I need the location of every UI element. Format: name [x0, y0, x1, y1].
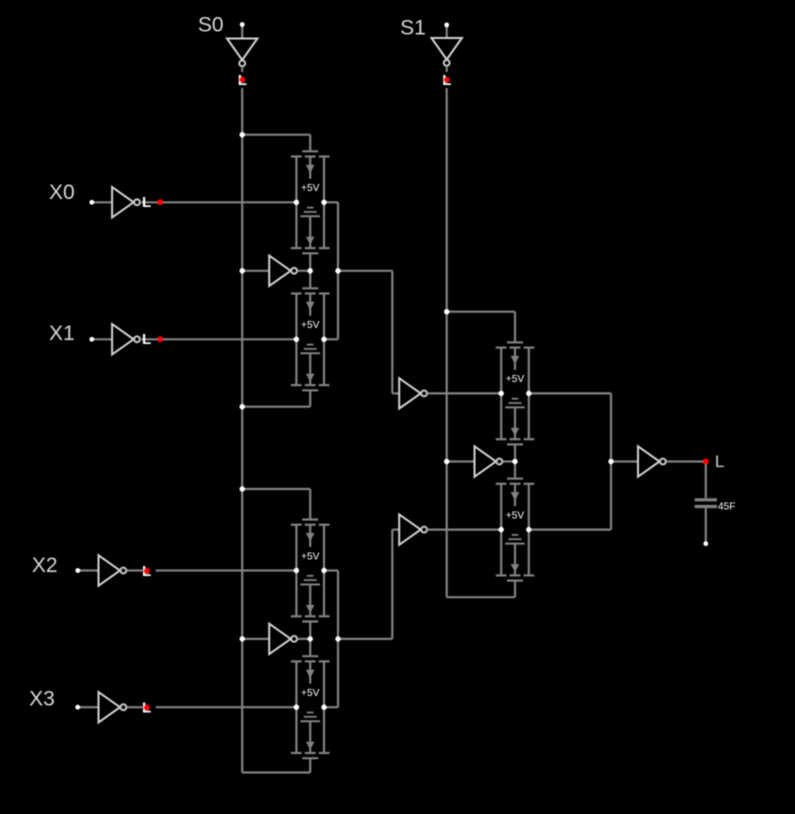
wire TG1 NMOS gate lead	[309, 253, 311, 270]
inverter U11 (S1 complement)	[475, 446, 503, 476]
svg-text:S1: S1	[400, 17, 426, 40]
wire TG5 PMOS gate riser	[514, 312, 516, 343]
wire riser to U9 input	[392, 392, 399, 394]
inverter U5 (X2)	[99, 555, 127, 585]
inverter U12 (output buffer)	[638, 446, 666, 476]
wire TG1 output right	[324, 201, 338, 203]
input post X1	[89, 337, 94, 342]
input post X2	[75, 568, 80, 573]
junction S0/U7	[240, 268, 245, 273]
inverter U1 (S0 buffer, points down)	[227, 39, 257, 67]
input post X0	[89, 200, 94, 205]
terminal dot TG3 output	[321, 568, 326, 573]
node dot X3-bar (red)	[144, 705, 150, 711]
wire U11 output to gate node	[503, 460, 515, 462]
wire stage2 output bus	[610, 393, 612, 529]
junction gate node upper	[308, 268, 313, 273]
wire U1 bubble lead	[241, 68, 243, 73]
wire U2 bubble lead	[446, 67, 448, 72]
transmission gate TG2 (PMOS bulk +5V / NMOS bulk gnd)	[291, 288, 330, 390]
wire TG6 PMOS gate lead	[514, 462, 516, 479]
transmission gate TG5 (PMOS bulk +5V / NMOS bulk gnd)	[496, 342, 535, 444]
transmission gate TG3 (PMOS bulk +5V / NMOS bulk gnd)	[291, 520, 330, 622]
wire TG2 NMOS gate riser	[309, 390, 311, 406]
wire U8 output to gate node	[298, 638, 311, 640]
wire S1 post to inverter	[446, 27, 448, 39]
terminal dot TG5 output	[526, 391, 531, 396]
terminal dot TG2 output	[321, 337, 326, 342]
node dot S0-bar (red)	[239, 77, 245, 83]
wire S1 to TG5 PMOS gate	[447, 311, 515, 313]
inverter U8 (S0 complement, lower)	[269, 624, 297, 654]
wire TG6 NMOS gate riser	[514, 581, 516, 598]
wire TG4 PMOS gate lead	[309, 639, 311, 656]
terminal dot TG4 input	[294, 705, 299, 710]
wire S0 to TG2 NMOS gate	[242, 406, 310, 408]
junction S0/TG3	[240, 486, 245, 491]
terminal dot TG2 input	[294, 337, 299, 342]
wire X0-bar to TG input	[142, 201, 297, 203]
wire U5 bubble lead	[127, 569, 143, 571]
wire U10 output to TG6 input	[427, 528, 501, 530]
svg-text:S0: S0	[198, 13, 224, 36]
wire X1-bar to TG input	[142, 338, 297, 340]
wire S0 to TG3 PMOS gate	[242, 488, 310, 490]
wire TG3 PMOS gate riser	[309, 489, 311, 520]
svg-text:X1: X1	[49, 322, 75, 345]
wire TG5 output right	[529, 392, 611, 394]
junction S0/U8	[240, 636, 245, 641]
wire TG3 output right	[324, 569, 338, 571]
wire riser up to U10	[391, 530, 393, 639]
node dot X2-bar (red)	[144, 568, 150, 574]
wire TG4 output right	[324, 706, 338, 708]
terminal dot TG6 input	[499, 527, 504, 532]
wire X2 post to inverter	[80, 569, 99, 571]
inverter U6 (X3)	[99, 692, 127, 722]
input post X3	[75, 705, 80, 710]
node dot S1-bar (red)	[444, 77, 450, 83]
wire capacitor C1 to bottom post	[705, 508, 707, 544]
wire output node to capacitor C1	[705, 462, 707, 499]
wire S0 to inverter U7	[242, 270, 269, 272]
wire TG1 PMOS gate riser	[309, 135, 311, 152]
wire S1 bus corner to TG6 gate	[447, 596, 515, 598]
wire S1 to inverter U11	[447, 460, 475, 462]
wire U7 output to gate node	[298, 270, 311, 272]
junction stage2 output	[608, 459, 613, 464]
wire mux-lower output to riser	[338, 638, 392, 640]
input post S0	[240, 22, 245, 27]
capacitor C1 bottom plate	[695, 505, 717, 508]
wire mux-lower output bus	[337, 571, 339, 708]
inverter U10 (lower mux buffer)	[399, 514, 427, 544]
wire stage2 output to U12	[611, 460, 638, 462]
terminal dot TG1 input	[294, 200, 299, 205]
wire S0 to TG1 PMOS gate	[242, 134, 310, 136]
inverter U4 (X1)	[112, 324, 140, 354]
terminal dot TG3 input	[294, 568, 299, 573]
node dot output L (red)	[703, 459, 709, 465]
terminal dot TG4 output	[321, 705, 326, 710]
svg-text:L: L	[715, 452, 724, 471]
transmission gate TG6 (PMOS bulk +5V / NMOS bulk gnd)	[496, 479, 535, 581]
wire TG5 NMOS gate lead	[514, 444, 516, 461]
svg-text:L: L	[142, 331, 151, 348]
wire riser down to U9	[391, 271, 393, 394]
wire mux-upper output bus	[337, 202, 339, 339]
svg-text:X2: X2	[32, 554, 58, 577]
svg-text:X3: X3	[29, 687, 55, 710]
junction mux-upper output	[335, 268, 340, 273]
wire X1 post to inverter	[94, 338, 113, 340]
wire TG4 NMOS gate riser	[309, 758, 311, 772]
wire X3-bar to TG input	[156, 706, 297, 708]
inverter U2 (S1 buffer, points down)	[432, 38, 462, 66]
terminal dot TG6 output	[526, 527, 531, 532]
inverter U9 (upper mux buffer)	[399, 378, 427, 408]
node dot X0-bar (red)	[157, 199, 163, 205]
capacitor C1 top plate	[695, 498, 717, 501]
input post S1	[444, 23, 449, 28]
wire X3 post to inverter	[79, 706, 98, 708]
wire TG2 PMOS gate lead	[309, 271, 311, 289]
wire U6 bubble lead	[127, 706, 143, 708]
wire S0 post to inverter	[241, 26, 243, 39]
terminal dot TG1 output	[321, 200, 326, 205]
inverter U7 (S0 complement, upper)	[269, 256, 297, 286]
wire TG2 output right	[324, 338, 338, 340]
wire X2-bar to TG input	[156, 569, 297, 571]
wire S0 bus corner to TG4 gate	[242, 771, 310, 773]
junction gate node stage2	[512, 459, 517, 464]
transmission gate TG4 (PMOS bulk +5V / NMOS bulk gnd)	[291, 656, 330, 758]
post capacitor bottom	[703, 541, 708, 546]
wire TG3 NMOS gate lead	[309, 622, 311, 639]
junction S1/U11	[444, 459, 449, 464]
junction mux-lower output	[335, 636, 340, 641]
wire U9 output to TG5 input	[427, 392, 501, 394]
junction gate node lower	[308, 636, 313, 641]
terminal dot TG5 input	[499, 391, 504, 396]
svg-text:45F: 45F	[718, 501, 736, 512]
svg-text:X0: X0	[49, 181, 75, 204]
wire X0 post to inverter	[94, 201, 113, 203]
wire riser to U10 input	[392, 528, 399, 530]
node dot X1-bar (red)	[157, 336, 163, 342]
wire U12 output to output node	[666, 460, 706, 462]
wire TG6 output right	[529, 528, 611, 530]
transmission gate TG1 (PMOS bulk +5V / NMOS bulk gnd)	[291, 151, 330, 253]
wire mux-upper output to riser	[338, 270, 392, 272]
junction S1/TG5	[444, 309, 449, 314]
wire S0-bar vertical bus	[241, 88, 243, 773]
wire S0 to inverter U8	[242, 638, 269, 640]
inverter U3 (X0)	[112, 187, 140, 217]
wire S1-bar vertical bus	[446, 88, 448, 597]
svg-text:L: L	[142, 194, 151, 211]
junction S0/TG2	[240, 404, 245, 409]
junction S0/TG1	[240, 132, 245, 137]
